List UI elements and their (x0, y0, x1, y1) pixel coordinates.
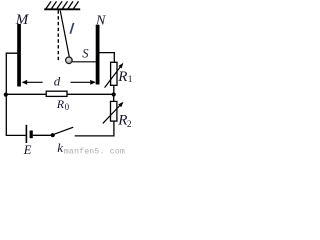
resistor R2 (variable) (111, 101, 117, 121)
svg-text:R: R (56, 97, 65, 111)
ceiling support line (44, 8, 80, 10)
battery E short plate (30, 131, 33, 139)
wire junction to R2 (113, 95, 115, 102)
svg-text:0: 0 (65, 102, 70, 112)
wire battery to switch (33, 134, 51, 136)
pendulum rest position (dashed) (57, 10, 59, 60)
plate N (96, 25, 100, 85)
wire plate N to R1 (100, 53, 115, 63)
svg-text:manfen5. com: manfen5. com (64, 146, 125, 156)
svg-text:k: k (57, 140, 63, 155)
wire R0 to right junction (67, 93, 114, 95)
label l (70, 23, 73, 34)
R1 wiper arrow (105, 63, 124, 88)
resistor R0 (46, 91, 67, 96)
resistor R1 (variable) (111, 62, 117, 85)
d dimension arrow left (22, 80, 43, 85)
wire plate M to left rail and down to battery (6, 53, 26, 135)
pendulum string (60, 10, 69, 57)
wire R2 to bottom rail and to switch (75, 121, 114, 136)
svg-text:S: S (82, 46, 89, 60)
switch k pivot (51, 133, 55, 137)
battery E long plate (25, 125, 27, 143)
svg-text:N: N (95, 13, 106, 28)
pendulum ball s (66, 57, 73, 64)
wire junction to R0 (6, 93, 46, 95)
svg-text:R: R (117, 112, 127, 128)
node left junction (4, 93, 8, 97)
svg-text:M: M (15, 12, 30, 28)
svg-text:R: R (117, 69, 127, 85)
switch k lever (54, 127, 73, 134)
svg-text:2: 2 (127, 120, 132, 130)
svg-text:1: 1 (128, 75, 133, 85)
wire R1 to junction (113, 85, 115, 94)
R2 wiper arrow (103, 102, 124, 124)
d dimension arrow right (71, 80, 96, 85)
svg-text:E: E (23, 143, 32, 156)
svg-text:d: d (54, 74, 61, 89)
plate M (17, 24, 21, 87)
wire ball to plate N (72, 61, 96, 63)
node right junction (112, 92, 116, 96)
ceiling hatching (46, 1, 79, 8)
